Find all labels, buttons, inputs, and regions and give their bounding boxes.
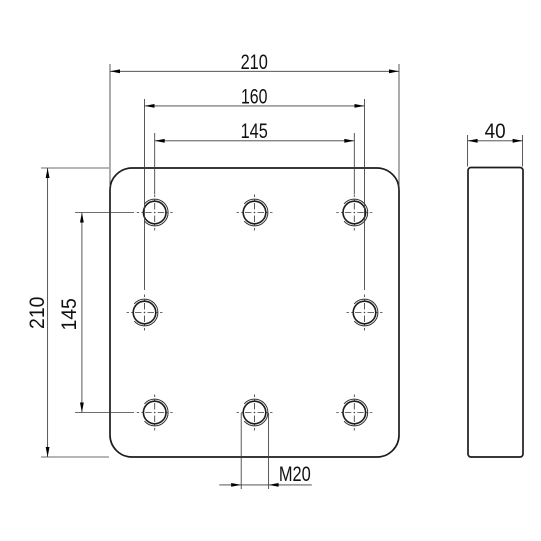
svg-text:M20: M20 [279,462,311,486]
dimension M20 (thread callout, bottom-middle hole) [219,413,311,489]
tapped hole H1 top-left M20 [137,195,173,231]
tapped hole H5 middle-right M20 [347,295,383,331]
tapped hole H4 middle-left M20 [127,295,163,331]
dimension 160 (middle holes spacing) [145,85,365,290]
tapped hole H6 bottom-left M20 [137,395,173,431]
svg-text:210: 210 [241,50,268,74]
dimension 40 (plate thickness, side view) [468,119,523,167]
tapped hole H7 bottom-middle M20 [237,395,273,431]
dimension 210 (left height) [25,168,109,457]
svg-text:145: 145 [57,298,81,330]
svg-text:210: 210 [25,297,49,329]
side view outline [468,168,523,458]
dimension 145 (corner holes horizontal spacing) [155,119,355,194]
tapped hole H8 bottom-right M20 [336,395,372,431]
svg-text:40: 40 [485,119,506,143]
tapped hole H3 top-right M20 [336,195,372,231]
dimension 145 (hole rows vertical spacing) [57,213,134,413]
svg-text:145: 145 [241,119,268,143]
svg-text:160: 160 [241,85,268,109]
tapped hole H2 top-middle M20 [237,195,273,231]
plate front view outline [110,168,399,457]
dimension 210 (top width) [110,50,399,190]
